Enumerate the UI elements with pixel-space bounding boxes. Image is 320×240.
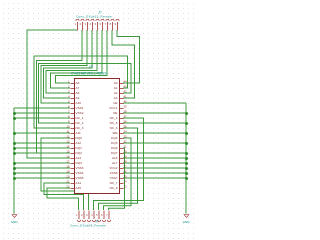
svg-text:VSS3: VSS3 xyxy=(76,166,84,170)
svg-text:DQ0: DQ0 xyxy=(76,136,83,140)
svg-text:38: 38 xyxy=(124,110,128,114)
svg-text:VSS1: VSS1 xyxy=(76,106,84,110)
svg-text:WE: WE xyxy=(113,131,118,135)
svg-text:31: 31 xyxy=(124,145,128,149)
svg-text:28: 28 xyxy=(124,160,128,164)
svg-text:10: 10 xyxy=(66,125,70,129)
svg-text:NC_6: NC_6 xyxy=(110,126,118,130)
svg-text:9: 9 xyxy=(115,22,117,26)
svg-text:A0: A0 xyxy=(114,81,118,85)
svg-text:3: 3 xyxy=(85,22,87,26)
svg-text:VCC2: VCC2 xyxy=(109,166,118,170)
svg-text:A8: A8 xyxy=(76,91,80,95)
svg-text:1: 1 xyxy=(75,22,77,26)
svg-text:A17: A17 xyxy=(112,161,118,165)
svg-text:2: 2 xyxy=(81,213,83,217)
svg-text:VSS6: VSS6 xyxy=(110,171,118,175)
svg-text:6: 6 xyxy=(100,22,102,26)
svg-text:26: 26 xyxy=(124,170,128,174)
svg-text:4: 4 xyxy=(90,22,92,26)
svg-text:6: 6 xyxy=(101,213,103,217)
svg-text:DQ2: DQ2 xyxy=(76,151,83,155)
svg-text:37: 37 xyxy=(124,115,128,119)
svg-text:NC_7: NC_7 xyxy=(110,181,118,185)
svg-text:42: 42 xyxy=(124,90,128,94)
svg-text:DQ1: DQ1 xyxy=(76,146,83,150)
svg-text:OE: OE xyxy=(113,111,117,115)
svg-text:A16: A16 xyxy=(112,156,118,160)
svg-text:A9: A9 xyxy=(76,96,80,100)
svg-text:5: 5 xyxy=(95,22,97,26)
svg-text:29: 29 xyxy=(124,155,128,159)
svg-text:12: 12 xyxy=(66,135,70,139)
svg-text:34: 34 xyxy=(124,130,128,134)
svg-text:25: 25 xyxy=(124,175,128,179)
svg-text:11: 11 xyxy=(67,130,70,134)
svg-text:CE: CE xyxy=(113,101,117,105)
svg-text:NC_3: NC_3 xyxy=(76,126,84,130)
svg-text:DQ7: DQ7 xyxy=(111,151,118,155)
svg-text:A10: A10 xyxy=(76,101,82,105)
svg-text:A1: A1 xyxy=(114,86,118,90)
svg-text:GND: GND xyxy=(11,220,19,224)
svg-text:A3: A3 xyxy=(114,96,118,100)
svg-text:27: 27 xyxy=(124,165,128,169)
svg-text:8: 8 xyxy=(110,22,112,26)
svg-text:GND: GND xyxy=(183,220,191,224)
svg-text:DQ4: DQ4 xyxy=(111,136,118,140)
svg-text:NC_2: NC_2 xyxy=(76,121,84,125)
svg-text:20: 20 xyxy=(66,175,70,179)
svg-text:NC_5: NC_5 xyxy=(110,121,118,125)
svg-text:43: 43 xyxy=(124,85,128,89)
svg-text:39: 39 xyxy=(124,105,128,109)
svg-text:CY62148EV30LL-45ZSXI: CY62148EV30LL-45ZSXI xyxy=(71,72,107,76)
svg-text:A14: A14 xyxy=(76,181,82,185)
svg-text:A11: A11 xyxy=(76,131,82,135)
svg-text:16: 16 xyxy=(66,155,70,159)
svg-text:VSS2: VSS2 xyxy=(76,111,84,115)
svg-text:30: 30 xyxy=(124,150,128,154)
svg-text:3: 3 xyxy=(86,213,88,217)
svg-text:VSS4: VSS4 xyxy=(76,171,84,175)
svg-text:44: 44 xyxy=(124,80,128,84)
svg-text:1: 1 xyxy=(76,213,78,217)
svg-text:41: 41 xyxy=(124,95,128,99)
svg-text:35: 35 xyxy=(124,125,128,129)
svg-text:A2: A2 xyxy=(114,91,118,95)
svg-text:17: 17 xyxy=(66,160,70,164)
svg-text:15: 15 xyxy=(66,150,70,154)
svg-text:NC_8: NC_8 xyxy=(110,186,118,190)
svg-text:A7: A7 xyxy=(76,86,80,90)
svg-text:19: 19 xyxy=(66,170,70,174)
svg-text:Conn_DSub09_Female: Conn_DSub09_Female xyxy=(70,224,106,228)
svg-text:2: 2 xyxy=(80,22,82,26)
svg-text:DQ3: DQ3 xyxy=(76,161,83,165)
svg-text:18: 18 xyxy=(66,165,70,169)
svg-text:A13: A13 xyxy=(76,156,82,160)
svg-text:21: 21 xyxy=(66,180,70,184)
svg-text:A6: A6 xyxy=(76,81,80,85)
svg-text:DQ5: DQ5 xyxy=(111,141,118,145)
svg-text:7: 7 xyxy=(105,22,107,26)
svg-text:DQ6: DQ6 xyxy=(111,146,118,150)
svg-text:24: 24 xyxy=(124,180,128,184)
svg-text:NC_4: NC_4 xyxy=(110,116,118,120)
svg-text:36: 36 xyxy=(124,120,128,124)
svg-text:A15: A15 xyxy=(76,186,82,190)
svg-text:NC_1: NC_1 xyxy=(76,116,84,120)
svg-text:32: 32 xyxy=(124,140,128,144)
svg-text:U?: U? xyxy=(89,65,93,69)
svg-text:23: 23 xyxy=(124,185,128,189)
svg-text:VCC1: VCC1 xyxy=(109,106,118,110)
svg-text:Conn_DSub15_Female: Conn_DSub15_Female xyxy=(76,15,112,19)
svg-text:A12: A12 xyxy=(76,141,82,145)
svg-text:4: 4 xyxy=(91,213,93,217)
svg-text:5: 5 xyxy=(96,213,98,217)
svg-text:VSS5: VSS5 xyxy=(76,176,84,180)
svg-text:13: 13 xyxy=(66,140,70,144)
svg-text:22: 22 xyxy=(66,185,70,189)
svg-text:7: 7 xyxy=(106,213,108,217)
svg-text:14: 14 xyxy=(66,145,70,149)
svg-text:33: 33 xyxy=(124,135,128,139)
svg-text:40: 40 xyxy=(124,100,128,104)
svg-text:VSS7: VSS7 xyxy=(110,176,118,180)
